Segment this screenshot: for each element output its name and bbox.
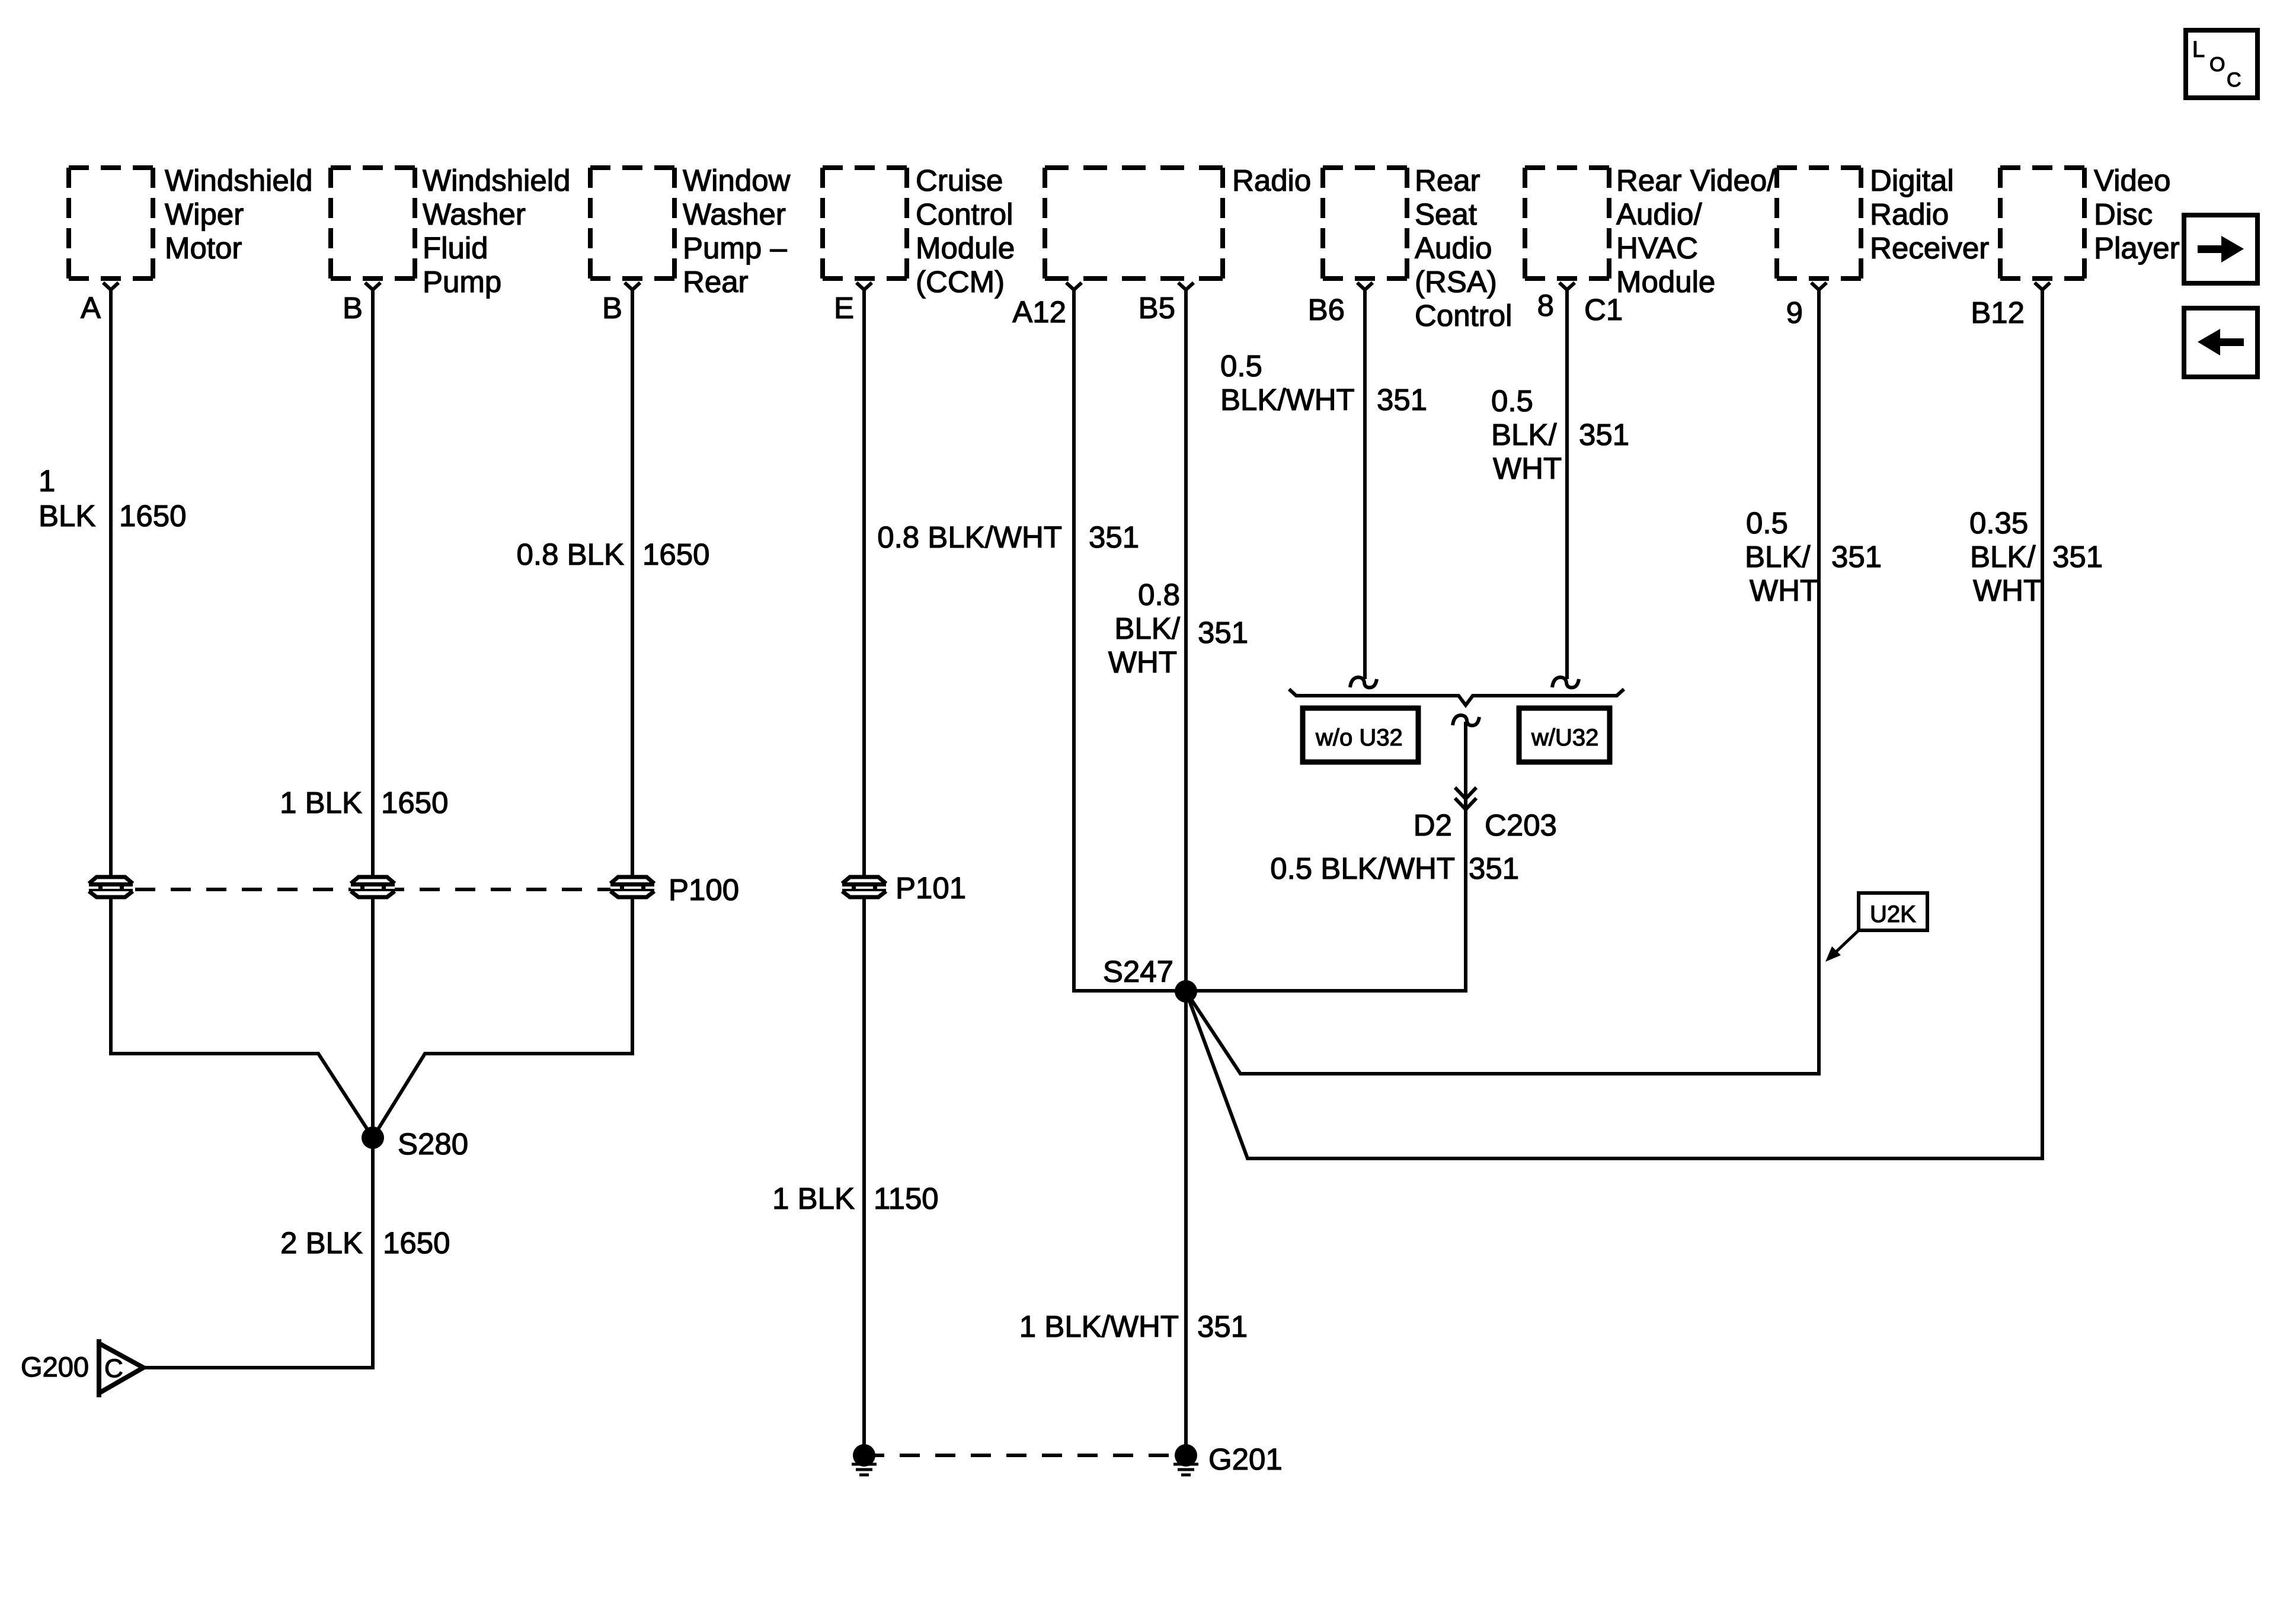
wire B5: radio ground through S247 to G201	[1184, 290, 1188, 1455]
wire 9: digital radio receiver ground to S247	[1186, 290, 1819, 1074]
svg-text:WHT: WHT	[1108, 645, 1177, 679]
wire B6: RSA ground stub	[1363, 290, 1367, 679]
svg-text:Receiver: Receiver	[1870, 231, 1989, 265]
digital radio receiver box	[1777, 168, 1861, 279]
svg-text:1650: 1650	[119, 499, 186, 533]
arrow left box	[2184, 308, 2257, 377]
svg-text:C: C	[2227, 69, 2241, 91]
svg-text:P101: P101	[896, 871, 966, 905]
svg-text:L: L	[2192, 37, 2205, 62]
svg-text:1: 1	[39, 464, 55, 498]
svg-text:351: 351	[1089, 520, 1139, 554]
window washer pump rear box	[590, 168, 674, 279]
wire B: washer fluid pump ground, 1 BLK 1650, continues to G200	[143, 290, 373, 1368]
svg-text:351: 351	[2052, 540, 2103, 574]
svg-text:0.35: 0.35	[1969, 506, 2028, 540]
fork pin B6	[1357, 283, 1373, 290]
svg-text:2 BLK: 2 BLK	[280, 1226, 363, 1260]
radio box	[1045, 168, 1223, 279]
svg-text:B12: B12	[1971, 296, 2025, 329]
svg-text:Module: Module	[1616, 265, 1715, 299]
wire D2/C203: 0.5 BLK/WHT 351 down to S247	[1186, 722, 1466, 991]
svg-text:(CCM): (CCM)	[916, 265, 1005, 299]
svg-text:351: 351	[1579, 418, 1629, 452]
wire A: windshield wiper motor ground, 1 BLK 1650	[111, 290, 373, 1138]
svg-text:S280: S280	[398, 1127, 468, 1161]
svg-text:1650: 1650	[381, 786, 448, 820]
svg-text:BLK/: BLK/	[1970, 540, 2036, 574]
svg-text:Video: Video	[2094, 164, 2171, 197]
svg-text:0.5 BLK/WHT: 0.5 BLK/WHT	[1270, 852, 1455, 885]
fork pin A12	[1066, 283, 1082, 290]
fork pin B	[365, 283, 380, 290]
svg-text:Windshield: Windshield	[423, 164, 570, 197]
rear seat audio box	[1323, 168, 1407, 279]
fork pin 9	[1811, 283, 1827, 290]
svg-text:Windshield: Windshield	[165, 164, 312, 197]
svg-text:Rear: Rear	[1415, 164, 1480, 197]
svg-text:BLK/WHT: BLK/WHT	[1220, 383, 1355, 417]
grommet P100 c	[610, 875, 654, 898]
CONNECTOR FORKS	[103, 283, 2050, 290]
box w/U32	[1519, 708, 1610, 762]
svg-text:351: 351	[1377, 383, 1427, 417]
svg-text:1650: 1650	[642, 537, 709, 571]
U2K arrow	[1835, 930, 1859, 953]
svg-text:HVAC: HVAC	[1616, 231, 1698, 265]
svg-text:Rear: Rear	[683, 265, 749, 299]
svg-text:(RSA): (RSA)	[1415, 265, 1497, 299]
svg-text:O: O	[2209, 53, 2225, 76]
svg-text:WHT: WHT	[1750, 574, 1818, 607]
chevron arrows C203	[1455, 788, 1476, 809]
svg-text:Pump –: Pump –	[683, 231, 787, 265]
svg-text:G201: G201	[1208, 1442, 1283, 1476]
fork pin A	[103, 283, 119, 290]
box w/o U32	[1303, 708, 1418, 762]
svg-text:0.8: 0.8	[1138, 578, 1180, 612]
svg-text:B5: B5	[1139, 291, 1175, 325]
svg-text:C: C	[104, 1354, 123, 1383]
fork pin C1	[1559, 283, 1575, 290]
options brace	[1289, 689, 1624, 705]
svg-text:P100: P100	[669, 873, 739, 907]
arrow right box	[2184, 215, 2257, 283]
svg-text:Module: Module	[916, 231, 1015, 265]
svg-text:Disc: Disc	[2094, 197, 2153, 231]
video disc player box	[2000, 168, 2084, 279]
svg-text:S247: S247	[1103, 955, 1173, 988]
rear video audio hvac module box	[1525, 168, 1609, 279]
fork pin B5	[1178, 283, 1194, 290]
svg-text:1 BLK: 1 BLK	[772, 1182, 855, 1215]
svg-text:Radio: Radio	[1870, 197, 1949, 231]
ground G201 left	[853, 1444, 875, 1467]
grommet P100 b	[351, 875, 395, 898]
svg-text:Washer: Washer	[683, 197, 786, 231]
svg-text:Digital: Digital	[1870, 164, 1954, 197]
wire A12: radio ground to S247	[1074, 290, 1186, 991]
svg-text:Wiper: Wiper	[165, 197, 244, 231]
svg-text:BLK: BLK	[39, 499, 95, 533]
svg-text:351: 351	[1469, 852, 1519, 885]
svg-text:BLK/: BLK/	[1114, 612, 1180, 645]
windshield wiper motor box	[69, 168, 153, 279]
svg-text:Audio/: Audio/	[1616, 197, 1702, 231]
dashed line G201	[864, 1454, 1186, 1457]
svg-text:Rear Video/: Rear Video/	[1616, 164, 1776, 197]
svg-text:B6: B6	[1308, 293, 1345, 327]
svg-text:C1: C1	[1584, 293, 1623, 327]
svg-text:1 BLK: 1 BLK	[280, 786, 362, 820]
svg-text:Window: Window	[683, 164, 791, 197]
grommet P101	[842, 875, 886, 898]
svg-text:G200: G200	[21, 1351, 89, 1382]
WIRE LABELS	[39, 349, 2103, 1343]
wire C1: rear video/audio/hvac module ground stub	[1565, 290, 1569, 679]
svg-text:B: B	[602, 291, 622, 325]
svg-text:Washer: Washer	[423, 197, 526, 231]
splice S280	[362, 1126, 384, 1149]
svg-text:WHT: WHT	[1973, 574, 2042, 607]
svg-text:w/U32: w/U32	[1531, 725, 1598, 751]
svg-text:Control: Control	[1415, 299, 1512, 332]
wire B: window washer pump rear, 0.8 BLK 1650	[373, 290, 632, 1138]
svg-text:Control: Control	[916, 197, 1013, 231]
svg-text:E: E	[834, 291, 854, 325]
fork pin B12	[2035, 283, 2050, 290]
wire E: CCM ground, 0.8 BLK/WHT 351 then 1 BLK 1150	[862, 290, 866, 1455]
svg-text:B: B	[343, 291, 363, 325]
svg-text:Audio: Audio	[1415, 231, 1492, 265]
svg-text:8: 8	[1537, 289, 1554, 322]
svg-text:Fluid: Fluid	[423, 231, 488, 265]
svg-text:Motor: Motor	[165, 231, 242, 265]
svg-text:Seat: Seat	[1415, 197, 1477, 231]
svg-text:351: 351	[1831, 540, 1882, 574]
splice S247	[1175, 980, 1197, 1003]
svg-text:C203: C203	[1485, 808, 1557, 842]
svg-text:Pump: Pump	[423, 265, 501, 299]
svg-text:D2: D2	[1414, 808, 1452, 842]
windshield washer fluid pump box	[331, 168, 415, 279]
svg-text:1650: 1650	[383, 1226, 450, 1260]
cruise control module box	[823, 168, 907, 279]
svg-text:351: 351	[1197, 1310, 1248, 1343]
wire B12: video disc player ground to S247	[1186, 290, 2042, 1158]
svg-text:A12: A12	[1012, 295, 1066, 329]
LOC box	[2186, 30, 2257, 98]
svg-text:WHT: WHT	[1493, 452, 1562, 485]
svg-text:U2K: U2K	[1870, 901, 1916, 927]
fork pin E	[856, 283, 872, 290]
svg-text:1 BLK/WHT: 1 BLK/WHT	[1019, 1310, 1179, 1343]
svg-text:0.5: 0.5	[1220, 349, 1262, 383]
svg-text:Player: Player	[2094, 231, 2180, 265]
svg-text:BLK/: BLK/	[1491, 418, 1557, 452]
U2K callout box	[1859, 893, 1927, 930]
dashed pass-through line P100	[135, 888, 652, 891]
svg-text:Radio: Radio	[1232, 164, 1311, 197]
svg-text:A: A	[81, 291, 101, 325]
svg-text:w/o U32: w/o U32	[1315, 725, 1403, 751]
squiggle on C203 wire	[1453, 715, 1479, 725]
PIN LABELS	[81, 289, 2025, 329]
svg-text:351: 351	[1198, 616, 1248, 649]
ground G201 right	[1175, 1444, 1197, 1467]
svg-text:9: 9	[1786, 296, 1803, 329]
svg-text:BLK/: BLK/	[1745, 540, 1811, 574]
fork pin B2	[625, 283, 640, 290]
grommet P100 a	[89, 875, 133, 898]
svg-text:1150: 1150	[874, 1182, 939, 1215]
svg-text:0.5: 0.5	[1746, 506, 1788, 540]
svg-text:Cruise: Cruise	[916, 164, 1003, 197]
svg-text:0.8 BLK/WHT: 0.8 BLK/WHT	[877, 520, 1062, 554]
svg-text:0.8 BLK: 0.8 BLK	[517, 537, 624, 571]
svg-text:0.5: 0.5	[1491, 384, 1533, 418]
ground G200	[97, 1339, 101, 1397]
